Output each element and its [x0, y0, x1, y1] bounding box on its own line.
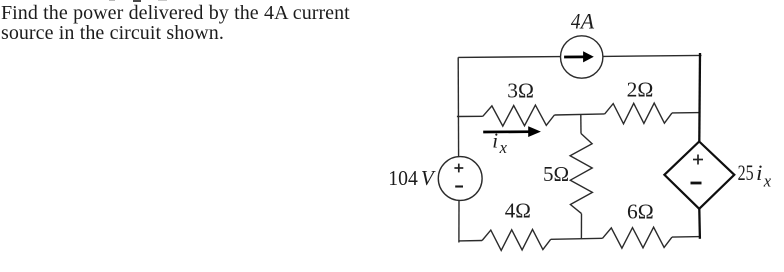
svg-text:A: A — [579, 9, 595, 33]
svg-text:2Ω: 2Ω — [627, 77, 654, 101]
svg-text:x: x — [499, 138, 508, 157]
svg-text:3Ω: 3Ω — [507, 79, 534, 103]
svg-text:4: 4 — [571, 9, 581, 33]
svg-text:6Ω: 6Ω — [627, 199, 654, 223]
svg-text:V: V — [421, 166, 436, 190]
svg-text:i: i — [492, 128, 498, 152]
svg-text:5Ω: 5Ω — [543, 162, 569, 186]
svg-text:i: i — [756, 160, 762, 185]
svg-text:4Ω: 4Ω — [505, 199, 531, 223]
svg-text:25: 25 — [738, 160, 754, 185]
svg-text:104: 104 — [388, 166, 418, 190]
svg-text:x: x — [763, 172, 772, 191]
